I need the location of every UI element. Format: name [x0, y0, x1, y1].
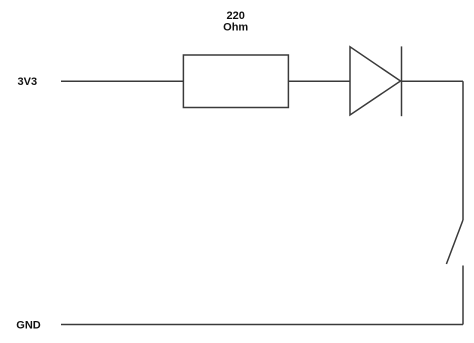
switch S1 lever — [446, 220, 463, 264]
svg-text:220: 220 — [227, 10, 245, 22]
wire right side down to switch — [462, 81, 464, 220]
svg-text:Ohm: Ohm — [223, 22, 248, 34]
resistor R1 body — [183, 55, 288, 108]
wire switch to bottom-right corner — [462, 266, 464, 325]
diode D1 (LED) anode triangle — [350, 47, 401, 115]
diode D1 cathode bar — [401, 46, 403, 116]
resistor value label 220 Ohm — [223, 10, 248, 34]
svg-text:GND: GND — [16, 320, 41, 332]
wire resistor to diode — [288, 80, 350, 82]
wire 3V3 to resistor — [61, 80, 184, 82]
wire bottom to GND — [61, 324, 463, 326]
svg-text:3V3: 3V3 — [18, 76, 38, 88]
wire diode to top-right corner — [402, 80, 464, 82]
